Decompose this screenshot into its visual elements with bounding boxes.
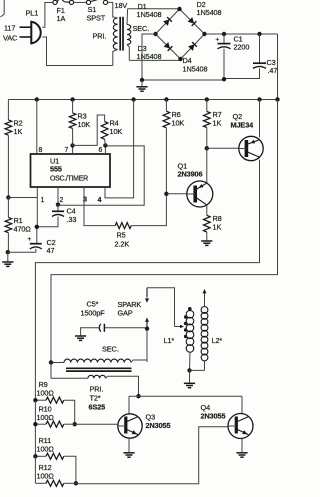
node R2 bottom	[6, 195, 10, 199]
label SPARK GAP	[118, 300, 142, 318]
transformer T1 primary winding	[113, 17, 118, 66]
svg-text:+: +	[28, 236, 32, 243]
node T2 pri / collectors	[136, 394, 140, 398]
svg-text:47: 47	[47, 246, 55, 255]
svg-text:.33: .33	[67, 215, 77, 224]
pin 2 wire	[57, 187, 59, 205]
node C1 top	[222, 32, 226, 36]
label PRI. (T1)	[93, 32, 107, 41]
label C4 .33	[67, 207, 77, 225]
svg-text:18V: 18V	[115, 1, 128, 10]
wire T1 secondary top to bridge	[128, 8, 180, 10]
pin 7 wire	[72, 145, 74, 154]
transformer T2 primary	[51, 363, 139, 397]
svg-text:+: +	[216, 37, 220, 44]
node L1 top	[188, 307, 192, 311]
wire L2 output arrow	[203, 289, 207, 293]
label F1 1A	[57, 6, 66, 23]
label R11 100ohm	[37, 436, 55, 454]
wire Q2 collector down-left (W1)	[35, 160, 259, 401]
node ground bus left	[140, 78, 144, 82]
resistor R12	[35, 456, 63, 486]
label C3 .47	[267, 58, 278, 75]
node W1 R11	[33, 454, 37, 458]
pin 7 label	[65, 147, 69, 154]
node rail R7	[205, 97, 209, 101]
label D3 1N5408	[137, 44, 162, 61]
label 18V	[115, 1, 128, 10]
resistor R10	[35, 400, 63, 456]
op-amp U1 555 box	[31, 154, 111, 187]
transistor Q1	[187, 181, 213, 207]
svg-text:6: 6	[99, 147, 103, 154]
label C2 47	[47, 238, 56, 255]
label Q2 MJE34	[231, 112, 255, 130]
ground (Q3)	[123, 438, 134, 457]
label R10 100ohm	[37, 405, 55, 423]
node A (R7/Q2 base/Q1 emitter)	[205, 146, 209, 150]
svg-text:6S25: 6S25	[89, 403, 106, 412]
node spark gap / C5	[145, 326, 149, 330]
transistor Q3	[118, 414, 142, 438]
label R5 2.2K	[115, 231, 130, 249]
node L1 tap 1	[184, 315, 187, 318]
node C4 bottom	[35, 225, 39, 229]
node bridge bottom	[178, 57, 182, 61]
label C5* 1500pF	[81, 300, 106, 318]
svg-text:.47: .47	[268, 66, 278, 75]
svg-text:2.2K: 2.2K	[115, 240, 130, 249]
label PL1	[26, 9, 39, 18]
label R2 1K	[14, 119, 23, 137]
node pin 2	[56, 202, 60, 206]
wire Q3 base	[64, 423, 118, 425]
wire R5 to Q1 base node	[131, 194, 166, 226]
svg-text:PRI.: PRI.	[90, 385, 104, 394]
wire R6 to Q1 base	[165, 128, 167, 194]
node rail pin8	[35, 97, 39, 101]
label PRI. T2* 6S25	[89, 385, 106, 412]
wire fuse to switch	[74, 1, 87, 3]
node bridge top	[177, 7, 181, 11]
svg-text:SEC.: SEC.	[133, 24, 150, 33]
svg-text:SPST: SPST	[87, 14, 106, 23]
transformer T2 core	[66, 368, 132, 371]
resistor R11	[35, 453, 63, 459]
ground (R8)	[201, 232, 212, 245]
wire +V top	[205, 34, 278, 100]
label R8 1K	[213, 214, 222, 232]
node L1/L2 common	[187, 368, 191, 372]
pin 8 label	[39, 147, 43, 154]
node ground left	[6, 250, 10, 254]
capacitor C3	[224, 34, 266, 79]
wire R3 to pin7	[72, 128, 74, 145]
capacitor C2	[8, 227, 42, 252]
wire plug to fuse	[42, 3, 53, 28]
wire Q1 collector to R8	[206, 205, 208, 216]
label R12 100ohm	[37, 463, 55, 481]
transformer T1 secondary winding	[127, 9, 131, 61]
svg-text:100Ω: 100Ω	[37, 472, 55, 481]
wire +18V rail	[8, 100, 277, 120]
wire bridge arm D2	[180, 9, 205, 34]
svg-text:1K: 1K	[14, 127, 23, 136]
resistor R2	[5, 120, 12, 135]
label 117 VAC	[3, 24, 17, 43]
svg-text:1K: 1K	[213, 119, 222, 128]
svg-text:1K: 1K	[213, 223, 222, 232]
svg-text:10K: 10K	[172, 119, 185, 128]
node L1 tap 2	[184, 322, 187, 325]
pin 4 label	[98, 195, 102, 204]
node Q1 base	[164, 192, 168, 196]
node rail right	[275, 97, 279, 101]
node T2 sec left (W2)	[49, 360, 53, 364]
pin 4 wire	[105, 100, 134, 198]
wire node to pin1	[8, 197, 37, 199]
transistor Q2	[239, 136, 263, 160]
wire bridge left to ground rail	[142, 34, 156, 80]
wire spark gap to L1 tap	[147, 288, 184, 329]
svg-text:PL1: PL1	[26, 9, 39, 18]
pin 1 label	[41, 197, 45, 204]
wire bridge arm D1	[156, 9, 180, 34]
svg-text:2: 2	[60, 197, 64, 204]
diode D4	[188, 42, 197, 51]
wire L1 bottom	[189, 352, 192, 371]
label R6 10K	[172, 110, 185, 128]
label D2 1N5408	[197, 0, 222, 17]
label S1 SPST	[87, 5, 106, 23]
node L1 tap 3	[184, 328, 187, 331]
svg-text:L2*: L2*	[212, 336, 223, 345]
svg-text:100Ω: 100Ω	[37, 389, 55, 398]
resistor R3	[69, 100, 76, 129]
wire R7 to node A	[206, 128, 208, 149]
svg-text:10K: 10K	[110, 127, 123, 136]
svg-text:2200: 2200	[234, 43, 250, 52]
label C1 2200	[234, 35, 250, 52]
wire T1 secondary bottom to bridge	[129, 59, 180, 60]
pin 1 wire	[36, 187, 38, 227]
svg-text:3: 3	[83, 195, 87, 204]
node C3 top	[257, 32, 261, 36]
svg-text:L1*: L1*	[164, 336, 175, 345]
label U1 555 OSC./TIMER	[50, 157, 88, 183]
ground (Q4)	[236, 438, 247, 457]
node bridge left	[153, 32, 157, 36]
wire bridge arm D3	[156, 34, 181, 59]
wire Q1 base lead	[166, 193, 186, 195]
svg-text:7: 7	[65, 147, 69, 154]
label SEC. (T2)	[102, 345, 119, 354]
wire sec HV to spark gap	[146, 329, 148, 362]
wire plug return to T1 primary bottom	[42, 37, 113, 66]
label Q4 2N3055	[201, 403, 226, 421]
svg-text:2N3055: 2N3055	[201, 412, 226, 421]
wire rail to Q2 emitter	[259, 100, 261, 138]
svg-text:C5*: C5*	[87, 300, 99, 309]
wire collector bus	[129, 396, 242, 414]
transformer T2 secondary	[51, 359, 147, 362]
node Q4 base junction	[74, 481, 78, 485]
ground (L1/L2)	[184, 370, 195, 387]
svg-text:470Ω: 470Ω	[14, 225, 32, 234]
node pin 6	[103, 143, 107, 147]
svg-text:VAC: VAC	[3, 34, 17, 43]
label Q1 2N3906	[178, 162, 203, 179]
wire Q4 base	[64, 427, 228, 484]
fuse F1	[53, 0, 74, 5]
spark gap electrodes	[145, 288, 149, 329]
label L2*	[212, 336, 223, 345]
ground (C5)	[75, 336, 86, 340]
plug PL1	[20, 22, 41, 44]
ground (bridge/filter)	[136, 80, 147, 91]
pin 3 wire	[84, 187, 115, 226]
inductor L2	[201, 293, 208, 361]
wire R2 to node	[7, 135, 9, 197]
transformer T1 core	[120, 17, 123, 51]
diode D3	[164, 42, 173, 51]
svg-text:PRI.: PRI.	[93, 32, 107, 41]
svg-text:GAP: GAP	[118, 309, 133, 318]
node Q3 base junction	[73, 422, 77, 426]
pin 2 label	[60, 197, 64, 204]
wire node A to Q2 base	[207, 147, 239, 149]
label R3 10K	[78, 112, 91, 130]
label R4 10K	[110, 119, 123, 137]
diode D1	[163, 17, 172, 26]
pin 6 label	[99, 147, 103, 154]
wire ground bus	[142, 79, 224, 81]
node bridge right	[202, 32, 206, 36]
resistor R9	[35, 397, 63, 403]
svg-text:100Ω: 100Ω	[37, 445, 55, 454]
svg-text:2N3906: 2N3906	[178, 170, 203, 179]
node rail R3	[70, 97, 74, 101]
capacitor C1	[216, 34, 231, 80]
wire R9 right	[64, 400, 75, 424]
pin 3 label	[83, 195, 87, 204]
wire node A to Q1 emitter	[206, 148, 208, 183]
wire +V feed to T2 (W2)	[51, 100, 278, 363]
node W1 R10	[33, 422, 37, 426]
svg-text:1A: 1A	[57, 14, 66, 23]
svg-text:T2*: T2*	[90, 394, 101, 403]
svg-text:1: 1	[41, 197, 45, 204]
svg-text:100Ω: 100Ω	[37, 413, 55, 422]
svg-text:OSC./TIMER: OSC./TIMER	[50, 176, 88, 183]
svg-text:R5: R5	[117, 231, 126, 240]
wire R11 right	[64, 456, 76, 483]
switch S1 SPST	[86, 0, 107, 5]
svg-text:555: 555	[50, 165, 62, 174]
label SEC. (T1)	[133, 24, 150, 33]
svg-text:117: 117	[4, 24, 15, 33]
node C1 bottom	[222, 77, 226, 81]
ground (left/C2)	[2, 252, 13, 266]
wire bridge arm D4	[181, 34, 205, 59]
capacitor C5	[81, 324, 147, 336]
label D4 1N5408	[183, 56, 208, 74]
svg-text:1N5408: 1N5408	[183, 65, 208, 74]
label L1*	[164, 336, 175, 345]
wire switch to T1 primary	[108, 2, 113, 17]
pin 8 wire	[36, 100, 38, 155]
label R7 1K	[213, 110, 222, 128]
svg-text:4: 4	[98, 195, 102, 204]
svg-text:8: 8	[39, 147, 43, 154]
wire R1 to ground node	[7, 233, 9, 253]
node rail Q2	[257, 97, 261, 101]
svg-text:1N5408: 1N5408	[137, 10, 162, 19]
resistor R5	[115, 223, 131, 229]
resistor R4	[73, 115, 108, 145]
wire pin6 to pin2 tie	[58, 146, 144, 205]
resistor R7	[204, 100, 211, 128]
label D1 1N5408	[137, 2, 162, 19]
diode D2	[188, 17, 197, 26]
label R9 100ohm	[37, 380, 55, 398]
capacitor C4	[37, 205, 64, 227]
resistor R1	[5, 198, 12, 233]
node rail R6	[164, 97, 168, 101]
label R1 470ohm	[14, 216, 32, 234]
node pin 7	[70, 143, 74, 147]
svg-text:SEC.: SEC.	[102, 345, 119, 354]
label Q3 2N3055	[146, 413, 171, 431]
node L1 tap 4	[184, 335, 187, 338]
svg-text:1N5408: 1N5408	[137, 52, 162, 61]
node W1 R9	[33, 398, 37, 402]
node rail pin4	[131, 97, 135, 101]
wire common to L2 bottom	[190, 361, 205, 371]
resistor R8	[204, 215, 211, 232]
transistor Q4	[228, 414, 253, 439]
svg-text:10K: 10K	[78, 120, 91, 129]
inductor L1	[186, 309, 194, 352]
svg-text:2N3055: 2N3055	[146, 421, 171, 430]
svg-text:MJE34: MJE34	[231, 121, 255, 130]
svg-text:1N5408: 1N5408	[197, 8, 222, 17]
wire stub (cut-off figure edge, top-left)	[1, 0, 5, 17]
svg-text:1500pF: 1500pF	[81, 309, 106, 318]
pin 6 wire	[104, 145, 106, 154]
resistor R6	[163, 100, 170, 128]
